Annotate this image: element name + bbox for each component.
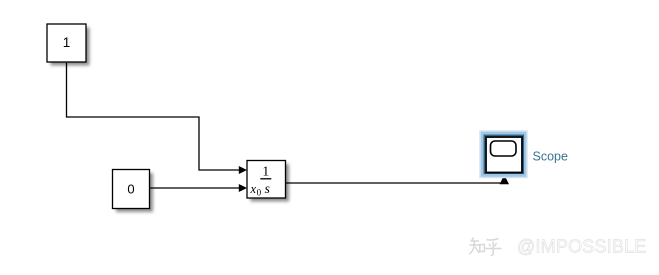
watermark zhihu glyph 乎: [486, 239, 502, 256]
svg-text:s: s: [265, 181, 270, 196]
constant block C1 shadow: [51, 28, 90, 66]
svg-text:Scope: Scope: [533, 150, 568, 164]
constant block C0 shadow: [116, 173, 153, 212]
svg-text:@IMPOSSIBLE: @IMPOSSIBLE: [517, 237, 647, 257]
watermark zhihu glyph 知: [469, 238, 484, 255]
svg-text:x: x: [250, 182, 257, 196]
integrator block shadow: [251, 164, 290, 202]
svg-text:1: 1: [63, 35, 71, 50]
svg-text:0: 0: [257, 187, 262, 197]
arrowhead into scope bottom port: [500, 175, 509, 185]
constant block C1 value 1: [47, 24, 86, 62]
arrowhead into integrator port 1: [239, 166, 247, 174]
scope screen icon: [491, 141, 517, 156]
wire C1 to integrator upper port: [67, 63, 240, 170]
scope block: [486, 137, 522, 173]
scope selection highlight inner ring: [484, 135, 523, 173]
constant block C0 value 0: [113, 170, 150, 209]
wire C0 to integrator x0 port: [150, 187, 240, 189]
scope selection highlight outer glow: [480, 131, 527, 178]
integrator block 1/s with x0 port: [247, 161, 286, 199]
arrowhead into integrator port x0: [239, 184, 247, 192]
svg-text:1: 1: [262, 164, 269, 179]
wire integrator output to scope: [286, 182, 508, 184]
svg-text:0: 0: [127, 182, 134, 197]
